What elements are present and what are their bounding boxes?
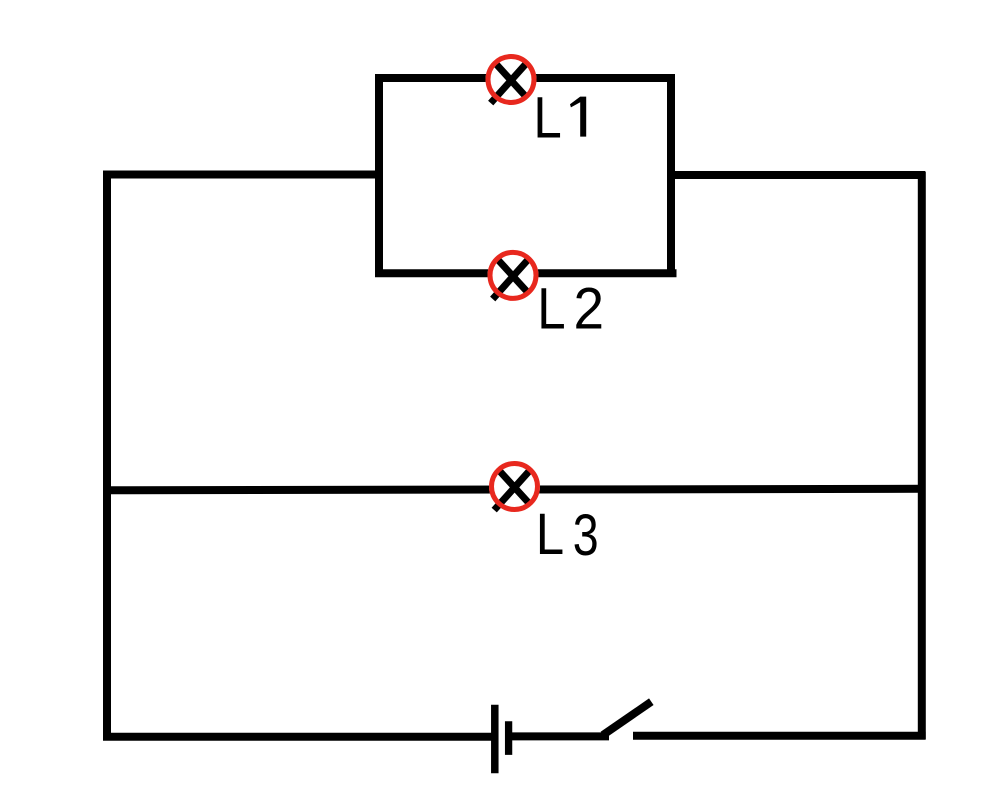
label L1 <box>533 85 586 150</box>
svg-text:L: L <box>533 85 561 150</box>
lamp L3 <box>489 461 540 512</box>
battery B1 long plate <box>491 705 499 774</box>
wire middle horizontal <box>103 489 925 491</box>
svg-text:2: 2 <box>574 276 605 341</box>
switch S1 lever <box>603 702 651 735</box>
wire bottom-right <box>633 732 926 740</box>
battery B1 short plate <box>505 721 512 755</box>
label L3 <box>536 502 599 568</box>
wire inner box left vertical <box>375 75 383 278</box>
label L2 <box>537 276 604 341</box>
wire inner box top <box>375 74 675 82</box>
wire bottom-left <box>103 733 498 741</box>
svg-text:L: L <box>536 502 564 567</box>
wire inner box bottom <box>375 269 677 277</box>
lamp L2 <box>488 250 539 301</box>
lamp L1 <box>486 54 537 105</box>
wire top-right horizontal <box>667 171 925 179</box>
wire left vertical <box>103 171 111 740</box>
svg-text:L: L <box>537 276 565 341</box>
wire right vertical <box>918 172 926 740</box>
wire bottom-middle (battery to switch) <box>505 732 609 740</box>
wire inner box right vertical <box>667 74 675 277</box>
wire top-left horizontal <box>103 171 383 179</box>
svg-text:3: 3 <box>573 503 599 568</box>
